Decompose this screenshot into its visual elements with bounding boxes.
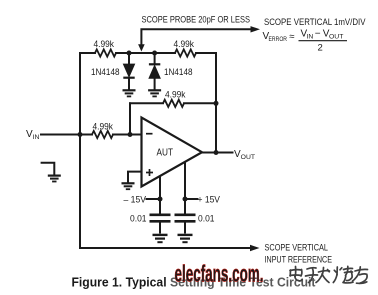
ground (below D1) xyxy=(123,90,136,96)
wire: scope probe pointer xyxy=(141,29,251,45)
capacitor C2 0.01 xyxy=(175,215,196,234)
wire: VIN lead xyxy=(41,134,142,136)
char shao xyxy=(336,267,338,275)
arrowhead: probe down-arrow xyxy=(138,44,145,51)
diode D2 1N4148 (cathode up) xyxy=(149,53,160,90)
wire: output lead xyxy=(202,152,233,154)
node A (top wire / D1) xyxy=(127,51,132,56)
ground (input reference, floating near VIN) xyxy=(41,163,61,182)
ground (below D2) xyxy=(148,90,161,96)
wire: +15V lead xyxy=(185,198,198,200)
resistor R2 4.99k (top right) xyxy=(175,49,196,56)
label scope vertical input reference xyxy=(265,242,333,264)
svg-text:4.99k: 4.99k xyxy=(93,122,114,132)
wire: right vertical rail xyxy=(215,53,217,153)
wire: -15V lead xyxy=(147,198,161,200)
node H (+15V) xyxy=(183,197,188,202)
svg-text:SCOPE VERTICAL: SCOPE VERTICAL xyxy=(265,242,329,252)
op-amp U1 AUT xyxy=(142,118,203,187)
resistor R3 4.99k (feedback) xyxy=(163,100,184,107)
svg-text:0.01: 0.01 xyxy=(130,214,147,224)
node B (top wire / D2) xyxy=(152,51,157,56)
svg-text:elecfans.com.: elecfans.com. xyxy=(175,261,264,287)
wire: V+ supply pin xyxy=(184,163,186,215)
char you xyxy=(355,269,368,271)
wire: left vertical rail xyxy=(79,53,81,248)
capacitor C1 0.01 xyxy=(150,215,171,234)
resistor R1 4.99k (top left) xyxy=(95,49,116,56)
wire: top summing rail xyxy=(80,52,216,54)
caption: Figure 1. Typical Settling Time Test Circuit xyxy=(72,276,317,290)
svg-text:4.99k: 4.99k xyxy=(165,90,186,100)
node G (-15V) xyxy=(158,197,163,202)
svg-text:0.01: 0.01 xyxy=(198,214,215,224)
svg-text:4.99k: 4.99k xyxy=(94,39,115,49)
diode D1 1N4148 (anode up) xyxy=(123,53,134,90)
svg-text:2: 2 xyxy=(318,43,323,54)
node E (feedback / right rail) xyxy=(214,101,219,106)
wire: +input to ground xyxy=(128,172,142,183)
svg-text:SCOPE PROBE 20pF OR LESS: SCOPE PROBE 20pF OR LESS xyxy=(142,15,251,25)
svg-text:SCOPE VERTICAL 1mV/DIV: SCOPE VERTICAL 1mV/DIV xyxy=(264,17,366,27)
svg-text:INPUT REFERENCE: INPUT REFERENCE xyxy=(265,254,333,264)
wire: bottom output-reference line xyxy=(80,247,251,249)
watermark: chinese calligraphy 电子发烧友 xyxy=(290,266,368,283)
char fa xyxy=(319,271,330,272)
ground (op-amp + input) xyxy=(122,183,135,189)
wire: feedback branch xyxy=(130,103,216,134)
svg-text:+ 15V: + 15V xyxy=(198,194,221,204)
char zi xyxy=(307,268,316,269)
svg-text:AUT: AUT xyxy=(157,148,174,159)
arrowhead: to scope vertical (top) xyxy=(251,26,261,32)
ground (below C2) xyxy=(178,235,193,242)
node C (VIN / left rail) xyxy=(78,132,83,137)
arrowhead: to scope reference (bottom) xyxy=(250,245,260,251)
node D (summing junction) xyxy=(128,132,133,137)
resistor R4 4.99k (input) xyxy=(92,131,113,138)
char dian xyxy=(294,267,296,277)
ground (below C1) xyxy=(153,235,168,242)
svg-text:– 15V: – 15V xyxy=(124,194,147,204)
svg-text:1N4148: 1N4148 xyxy=(91,67,120,77)
node F (VOUT) xyxy=(214,150,219,155)
label Verror formula xyxy=(263,28,348,53)
wire: V- supply pin xyxy=(159,177,161,215)
svg-text:1N4148: 1N4148 xyxy=(164,67,193,77)
svg-text:4.99k: 4.99k xyxy=(174,39,195,49)
